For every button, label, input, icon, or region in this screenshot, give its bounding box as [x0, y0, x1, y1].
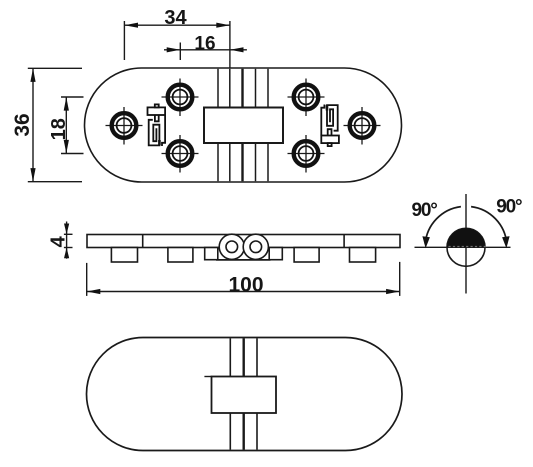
dimension 36 [11, 68, 82, 181]
side view knuckle roll right [243, 234, 268, 259]
dimension 100 [87, 262, 400, 297]
rotation arc right [471, 207, 507, 244]
svg-text:16: 16 [194, 33, 215, 54]
rotation symbol filled half disc [447, 228, 485, 247]
top view center block [204, 108, 283, 144]
hole B (left upper inner) [162, 79, 199, 117]
svg-text:100: 100 [228, 274, 263, 297]
side view step right [269, 248, 282, 260]
side view leaf joint right [343, 235, 345, 248]
svg-text:18: 18 [48, 118, 70, 140]
rotation symbol horizontal centerline [415, 246, 511, 248]
top view knuckle line 3 [255, 69, 257, 181]
bottom view knuckle line right [256, 338, 258, 449]
svg-text:90°: 90° [496, 197, 522, 218]
side view pin bore left [226, 241, 238, 253]
side view plate [87, 235, 400, 248]
side view boss 3 [294, 248, 319, 263]
rotation symbol equator stipple [449, 246, 487, 248]
top view hinge pin center line [241, 69, 243, 181]
dimension 16 [164, 33, 247, 60]
side view knuckle roll left [219, 234, 244, 259]
side view pin bore right [250, 241, 262, 253]
rotation symbol vertical centerline [465, 194, 467, 294]
side view step left [205, 248, 218, 260]
svg-text:36: 36 [11, 113, 34, 136]
dimension 4 [47, 222, 72, 259]
dimension 34 [124, 7, 229, 68]
bottom view block tick [204, 376, 211, 378]
hole C (left lower inner) [162, 135, 199, 173]
bottom view center block [212, 377, 277, 414]
rotation symbol circle [447, 228, 485, 266]
side view boss 1 [111, 248, 137, 263]
hole A (left outer) [106, 107, 143, 145]
spring latch symbol right (rotated 180) [321, 105, 339, 147]
bottom view outline [87, 338, 403, 451]
top view knuckle line 4 [267, 69, 269, 181]
top view hinge plate outline [85, 68, 402, 182]
side view pin underside line [216, 259, 271, 261]
spring latch symbol left [148, 104, 166, 146]
top view knuckle line 2 [229, 69, 231, 181]
rotation arc left arrowhead [422, 236, 430, 248]
bottom view pin center line [242, 338, 244, 449]
side view boss 4 [350, 248, 376, 263]
svg-text:4: 4 [47, 235, 69, 247]
side view boss 2 [168, 248, 193, 263]
top view knuckle line 1 [217, 69, 219, 181]
hole D (right upper inner) [288, 79, 325, 117]
svg-text:90°: 90° [412, 200, 438, 221]
svg-text:34: 34 [164, 7, 187, 29]
hole E (right lower inner) [288, 135, 325, 173]
dimension 18 [48, 97, 84, 154]
rotation arc right arrowhead [502, 236, 510, 248]
side view leaf joint left [142, 235, 144, 248]
bottom view knuckle line left [229, 338, 231, 449]
rotation arc left [425, 207, 461, 244]
hole F (right outer) [344, 107, 381, 145]
